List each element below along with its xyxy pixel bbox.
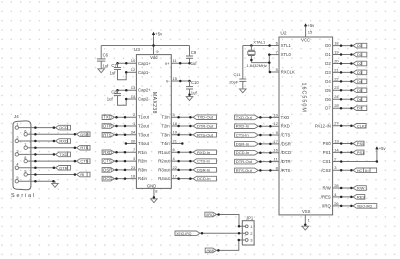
svg-text:18: 18 [334, 41, 339, 46]
junction [340, 187, 343, 190]
svg-text:27: 27 [334, 121, 339, 126]
wire (+5V rail to C9) [189, 46, 191, 57]
+5V supply (U3) [152, 31, 163, 36]
junction [177, 177, 180, 180]
junction [115, 116, 118, 119]
J4 pin 3 [15, 148, 18, 156]
J4 pin 1 [15, 122, 18, 130]
wire (/CS2 pin 3) [333, 169, 353, 171]
svg-text:23: 23 [334, 85, 339, 90]
svg-text:18: 18 [173, 121, 178, 126]
node CTS [77, 159, 91, 164]
wire [171, 116, 193, 118]
svg-text:RXD: RXD [103, 150, 112, 155]
node TXD-Out (from U3) [193, 115, 216, 120]
junction [269, 160, 272, 163]
junction [74, 160, 77, 163]
svg-text:1uf: 1uf [107, 96, 114, 101]
junction [177, 151, 180, 154]
svg-text:DCD: DCD [59, 125, 68, 130]
wire [333, 71, 353, 73]
junction [340, 205, 343, 208]
junction [177, 134, 180, 137]
junction [350, 187, 353, 190]
junction [124, 116, 127, 119]
svg-text:A=: A= [365, 169, 370, 173]
svg-text:/CS2: /CS2 [321, 168, 331, 173]
junction [350, 169, 353, 172]
junction [189, 134, 192, 137]
svg-text:7: 7 [24, 142, 26, 147]
junction [125, 89, 128, 92]
node R/W [353, 186, 366, 191]
svg-text:R4out: R4out [158, 176, 170, 181]
svg-text:14: 14 [334, 147, 339, 152]
wire (pin 15 to C10) [189, 81, 191, 87]
wire (C9 to pin 11) [189, 58, 191, 63]
svg-text:14: 14 [131, 94, 136, 99]
+5V supply (U2) [304, 23, 315, 28]
svg-text:XTL0: XTL0 [281, 52, 292, 57]
node DSR [77, 132, 91, 137]
node TXD (to U3) [102, 115, 114, 120]
junction [125, 62, 128, 65]
junction [350, 80, 353, 83]
svg-text:D7: D7 [357, 106, 363, 111]
svg-text:D6: D6 [357, 97, 363, 102]
svg-text:C10: C10 [191, 80, 199, 85]
wire (C10 to ground) [189, 89, 191, 97]
wire [28, 160, 77, 162]
svg-text:19: 19 [334, 49, 339, 54]
svg-text:T4in: T4in [161, 141, 170, 146]
wire [54, 181, 56, 183]
wire [171, 151, 193, 153]
svg-text:R2out: R2out [158, 159, 170, 164]
wire (XTL0 pin 7) [269, 54, 279, 56]
junction [340, 98, 343, 101]
wire (rail to C6) [100, 46, 102, 59]
svg-text:/RTS: /RTS [281, 168, 291, 173]
junction [124, 160, 127, 163]
node DTR (to U3) [102, 124, 114, 129]
junction [34, 146, 37, 149]
svg-text:RTS-Out: RTS-Out [236, 168, 253, 173]
node RTS-Out (from U3) [193, 132, 216, 137]
node D5 [353, 88, 367, 93]
svg-text:20: 20 [131, 138, 136, 143]
svg-text:R3out: R3out [158, 167, 170, 172]
svg-text:PA12-IN: PA12-IN [315, 123, 331, 128]
svg-text:13: 13 [131, 85, 136, 90]
capacitor C6 [97, 53, 109, 69]
svg-text:+5v: +5v [379, 146, 387, 151]
junction [340, 80, 343, 83]
wire [171, 178, 193, 180]
junction [350, 71, 353, 74]
svg-text:17: 17 [173, 174, 178, 179]
wire [114, 151, 136, 153]
node RXD-In (from U3) [193, 150, 216, 155]
node DSR-In (to U2) [235, 141, 259, 146]
svg-text:TXD: TXD [103, 115, 111, 120]
svg-text:CTS: CTS [103, 159, 112, 164]
junction [189, 151, 192, 154]
wire [114, 125, 136, 127]
node PS0 [353, 141, 365, 146]
wire [19, 127, 56, 129]
svg-text:28: 28 [334, 183, 339, 188]
svg-text:JP1: JP1 [246, 216, 254, 221]
junction [238, 239, 241, 242]
wire (C7 top lead) [117, 63, 119, 67]
junction [115, 151, 118, 154]
ground (J4 pin 5) [52, 183, 59, 187]
wire [19, 153, 56, 155]
svg-text:R1out: R1out [158, 150, 170, 155]
svg-text:15: 15 [173, 76, 178, 81]
svg-text:D7: D7 [325, 106, 331, 111]
junction [116, 62, 119, 65]
svg-text:16C550M: 16C550M [301, 83, 307, 113]
svg-text:v-: v- [166, 79, 170, 84]
junction [34, 180, 37, 183]
svg-text:R3in: R3in [138, 167, 147, 172]
svg-text:T2in: T2in [161, 124, 170, 129]
svg-text:26: 26 [334, 201, 339, 206]
wire (+5V rail) [101, 45, 189, 47]
ground (U2) [302, 226, 309, 230]
svg-text:U2: U2 [280, 31, 286, 37]
svg-text:21: 21 [173, 138, 178, 143]
junction [115, 169, 118, 172]
IC U2 16C550 UART body [279, 31, 333, 215]
junction [268, 44, 271, 47]
svg-text:12: 12 [273, 121, 278, 126]
svg-text:D3: D3 [357, 70, 363, 75]
node TXD [56, 152, 71, 157]
svg-text:DSR: DSR [80, 132, 89, 137]
junction [340, 160, 343, 163]
node D2 [353, 61, 367, 66]
J4 pin 8 [24, 155, 27, 163]
junction [74, 133, 77, 136]
wire (T4out pin 20 stub) [126, 143, 136, 145]
junction [34, 126, 37, 129]
svg-text:22: 22 [173, 165, 178, 170]
junction [340, 44, 343, 47]
junction [53, 140, 56, 143]
svg-text:DCD-In: DCD-In [197, 176, 211, 181]
wire (XTAL1 to C11) [242, 46, 244, 80]
capacitor C7 [110, 63, 121, 76]
junction [177, 169, 180, 172]
junction [259, 125, 262, 128]
J4 pin 9 [24, 169, 27, 177]
junction [179, 80, 182, 83]
junction [177, 125, 180, 128]
svg-text:Cap1-: Cap1- [138, 70, 150, 75]
svg-text:XTAL1: XTAL1 [253, 39, 266, 44]
wire [114, 169, 136, 171]
node RXD (to U3) [102, 150, 114, 155]
wire [258, 125, 279, 127]
wire (C8 return to pin 14) [118, 96, 127, 106]
wire [258, 169, 279, 171]
svg-text:RTS-Out: RTS-Out [197, 132, 214, 137]
svg-text:RI: RI [80, 172, 84, 177]
svg-text:R2in: R2in [138, 159, 147, 164]
wire [19, 180, 55, 182]
junction [34, 167, 37, 170]
junction [238, 232, 241, 235]
wire [114, 178, 136, 180]
junction [340, 151, 343, 154]
node XEIO-IRQ (to JP1) [175, 231, 200, 236]
U3 pin names and numbers [131, 49, 178, 194]
node RTS [77, 145, 91, 150]
wire (C7 return to pin 12) [118, 70, 127, 80]
svg-text:1.8432MHz: 1.8432MHz [246, 63, 266, 68]
svg-text:D6: D6 [325, 97, 331, 102]
wire [258, 152, 279, 154]
svg-text:PS0: PS0 [357, 141, 365, 146]
svg-text:DTR: DTR [103, 124, 112, 129]
svg-text:CS1: CS1 [322, 159, 331, 164]
svg-text:10: 10 [131, 58, 136, 63]
junction [125, 71, 128, 74]
wire [333, 107, 353, 109]
svg-text:RXD: RXD [59, 139, 68, 144]
junction [189, 177, 192, 180]
svg-text:21: 21 [334, 67, 339, 72]
ground (C11) [240, 89, 247, 93]
junction [217, 249, 220, 252]
svg-text:2: 2 [16, 135, 18, 140]
wire (T4in pin 21 stub) [171, 143, 182, 145]
junction [304, 223, 307, 226]
junction [350, 107, 353, 110]
wire [333, 80, 353, 82]
svg-text:U3: U3 [134, 47, 140, 53]
node DCD-In (to U2) [235, 150, 259, 155]
svg-text:16: 16 [273, 148, 278, 153]
wire [28, 174, 77, 176]
wire [19, 167, 56, 169]
junction [124, 134, 127, 137]
wire [114, 160, 136, 162]
wire (v- pin 15) [171, 80, 189, 82]
J4 pin 2 [15, 135, 18, 143]
junction [350, 196, 353, 199]
svg-text:1uf: 1uf [110, 71, 117, 76]
svg-text:VSS: VSS [302, 209, 311, 214]
wire (XTL0 branch) [268, 55, 270, 72]
svg-text:RXD: RXD [281, 124, 290, 129]
node CTS-In (to U2) [235, 133, 259, 138]
svg-text:D4: D4 [357, 79, 363, 84]
junction [268, 61, 271, 64]
junction [115, 125, 118, 128]
svg-text:1uf: 1uf [191, 61, 198, 66]
svg-text:D0: D0 [357, 43, 363, 48]
wire (Cap2- pin 14) [126, 98, 136, 100]
svg-text:TXD-Out: TXD-Out [236, 115, 253, 120]
wire (/NMI to JP1 pin 3) [217, 240, 246, 250]
svg-text:T1in: T1in [161, 115, 170, 120]
svg-text:Cap1+: Cap1+ [138, 61, 151, 66]
svg-text:R4in: R4in [138, 176, 147, 181]
svg-text:D1: D1 [357, 52, 363, 57]
J4 pin 7 [24, 142, 27, 150]
node RXD [56, 139, 71, 144]
svg-text:1uf: 1uf [102, 63, 109, 68]
junction [350, 205, 353, 208]
junction [259, 116, 262, 119]
svg-text:PS1: PS1 [323, 150, 332, 155]
node CLK2 [353, 123, 367, 128]
capacitor C9 [186, 50, 197, 66]
node DTR-Out (from U3) [193, 124, 216, 129]
node D4 [353, 79, 367, 84]
junction [74, 173, 77, 176]
node RTS-Out (to U2) [235, 168, 259, 173]
svg-text:DCD-In: DCD-In [236, 150, 250, 155]
junction [179, 62, 182, 65]
node D0 [353, 43, 367, 48]
svg-text:/RES: /RES [321, 194, 331, 199]
junction [188, 80, 191, 83]
svg-text:DSR-In: DSR-In [197, 167, 210, 172]
node XEIO-IRQ [353, 204, 377, 209]
junction [115, 160, 118, 163]
junction [189, 116, 192, 119]
svg-text:CTS-In: CTS-In [236, 133, 249, 138]
svg-text:XEIO-IRQ: XEIO-IRQ [357, 204, 373, 208]
wire (XEIO-IRQ to JP1 pin 2) [200, 232, 245, 234]
svg-text:PS0: PS0 [323, 141, 332, 146]
junction [340, 53, 343, 56]
wire (CS1 pin 2 to +5V) [333, 151, 377, 162]
junction [125, 98, 128, 101]
svg-text:20pF: 20pF [229, 80, 239, 85]
junction [53, 126, 56, 129]
node DCD-In (from U3) [193, 176, 216, 181]
node XTAL1 [253, 39, 266, 44]
junction [124, 125, 127, 128]
ground (C6) [98, 69, 105, 73]
svg-text:T3in: T3in [161, 132, 170, 137]
wire (Cap2+ pin 13) [118, 89, 137, 91]
junction [259, 134, 262, 137]
node DSR (to U3) [102, 167, 114, 172]
junction [350, 62, 353, 65]
svg-text:/NMI: /NMI [206, 249, 214, 253]
junction [340, 71, 343, 74]
svg-text:D0: D0 [325, 43, 331, 48]
svg-text:RXCLK: RXCLK [281, 70, 295, 75]
svg-text:Vdd: Vdd [150, 55, 158, 60]
svg-text:15: 15 [308, 30, 313, 35]
junction [115, 177, 118, 180]
svg-text:RXD-In: RXD-In [236, 124, 249, 129]
svg-text:CTS-In: CTS-In [197, 159, 210, 164]
svg-text:v+: v+ [165, 61, 170, 66]
junction [376, 160, 379, 163]
svg-text:Cap2+: Cap2+ [138, 88, 151, 93]
wire [171, 125, 193, 127]
svg-text:/CTS: /CTS [281, 133, 291, 138]
junction [340, 89, 343, 92]
svg-text:/IRQ: /IRQ [322, 203, 331, 208]
node PS1 [353, 150, 364, 155]
wire [258, 116, 279, 118]
svg-text:17: 17 [273, 139, 278, 144]
junction [259, 169, 262, 172]
svg-text:D2: D2 [325, 61, 331, 66]
wire [114, 116, 136, 118]
wire [333, 151, 353, 153]
node DTR-Out (to U2) [235, 159, 259, 164]
svg-text:C8: C8 [111, 89, 117, 94]
svg-text:XEIO-IRQ: XEIO-IRQ [176, 232, 192, 236]
junction [116, 89, 119, 92]
svg-text:D3: D3 [325, 70, 331, 75]
svg-text:RTS: RTS [80, 145, 88, 150]
wire (U2 VSS pin) [304, 215, 306, 226]
wire [333, 98, 353, 100]
svg-text:DCD: DCD [103, 176, 112, 181]
wire (C11 to ground) [242, 81, 244, 89]
junction [350, 98, 353, 101]
svg-text:DSR-In: DSR-In [236, 141, 249, 146]
wire (U3 Vdd pin 9) [153, 37, 155, 55]
svg-text:23: 23 [131, 165, 136, 170]
junction [269, 151, 272, 154]
wire (v+ pin 11) [171, 62, 189, 64]
svg-text:J4: J4 [14, 114, 19, 119]
svg-text:T4out: T4out [138, 141, 150, 146]
capacitor C11 20pF [229, 72, 246, 85]
junction [340, 169, 343, 172]
svg-text:+5v: +5v [307, 23, 315, 28]
IC U3 MAX238 body [134, 47, 171, 189]
svg-text:R/W: R/W [357, 186, 365, 191]
junction [269, 71, 272, 74]
junction [238, 225, 241, 228]
wire [171, 160, 193, 162]
junction [259, 143, 262, 146]
junction [268, 53, 271, 56]
svg-text:25: 25 [334, 103, 339, 108]
junction [34, 133, 37, 136]
wire [258, 161, 279, 163]
svg-text:RTS: RTS [103, 132, 112, 137]
junction [177, 116, 180, 119]
svg-text:19: 19 [173, 130, 178, 135]
wire [333, 89, 353, 91]
svg-text:12: 12 [131, 67, 136, 72]
svg-text:24: 24 [131, 130, 136, 135]
node /RES [353, 194, 365, 199]
svg-text:XTL1: XTL1 [281, 43, 292, 48]
junction [340, 107, 343, 110]
node D1 [353, 52, 367, 57]
node CTS-In (from U3) [193, 159, 216, 164]
svg-text:D5: D5 [357, 88, 363, 93]
junction [340, 62, 343, 65]
node TXD-Out (to U2) [235, 115, 259, 120]
